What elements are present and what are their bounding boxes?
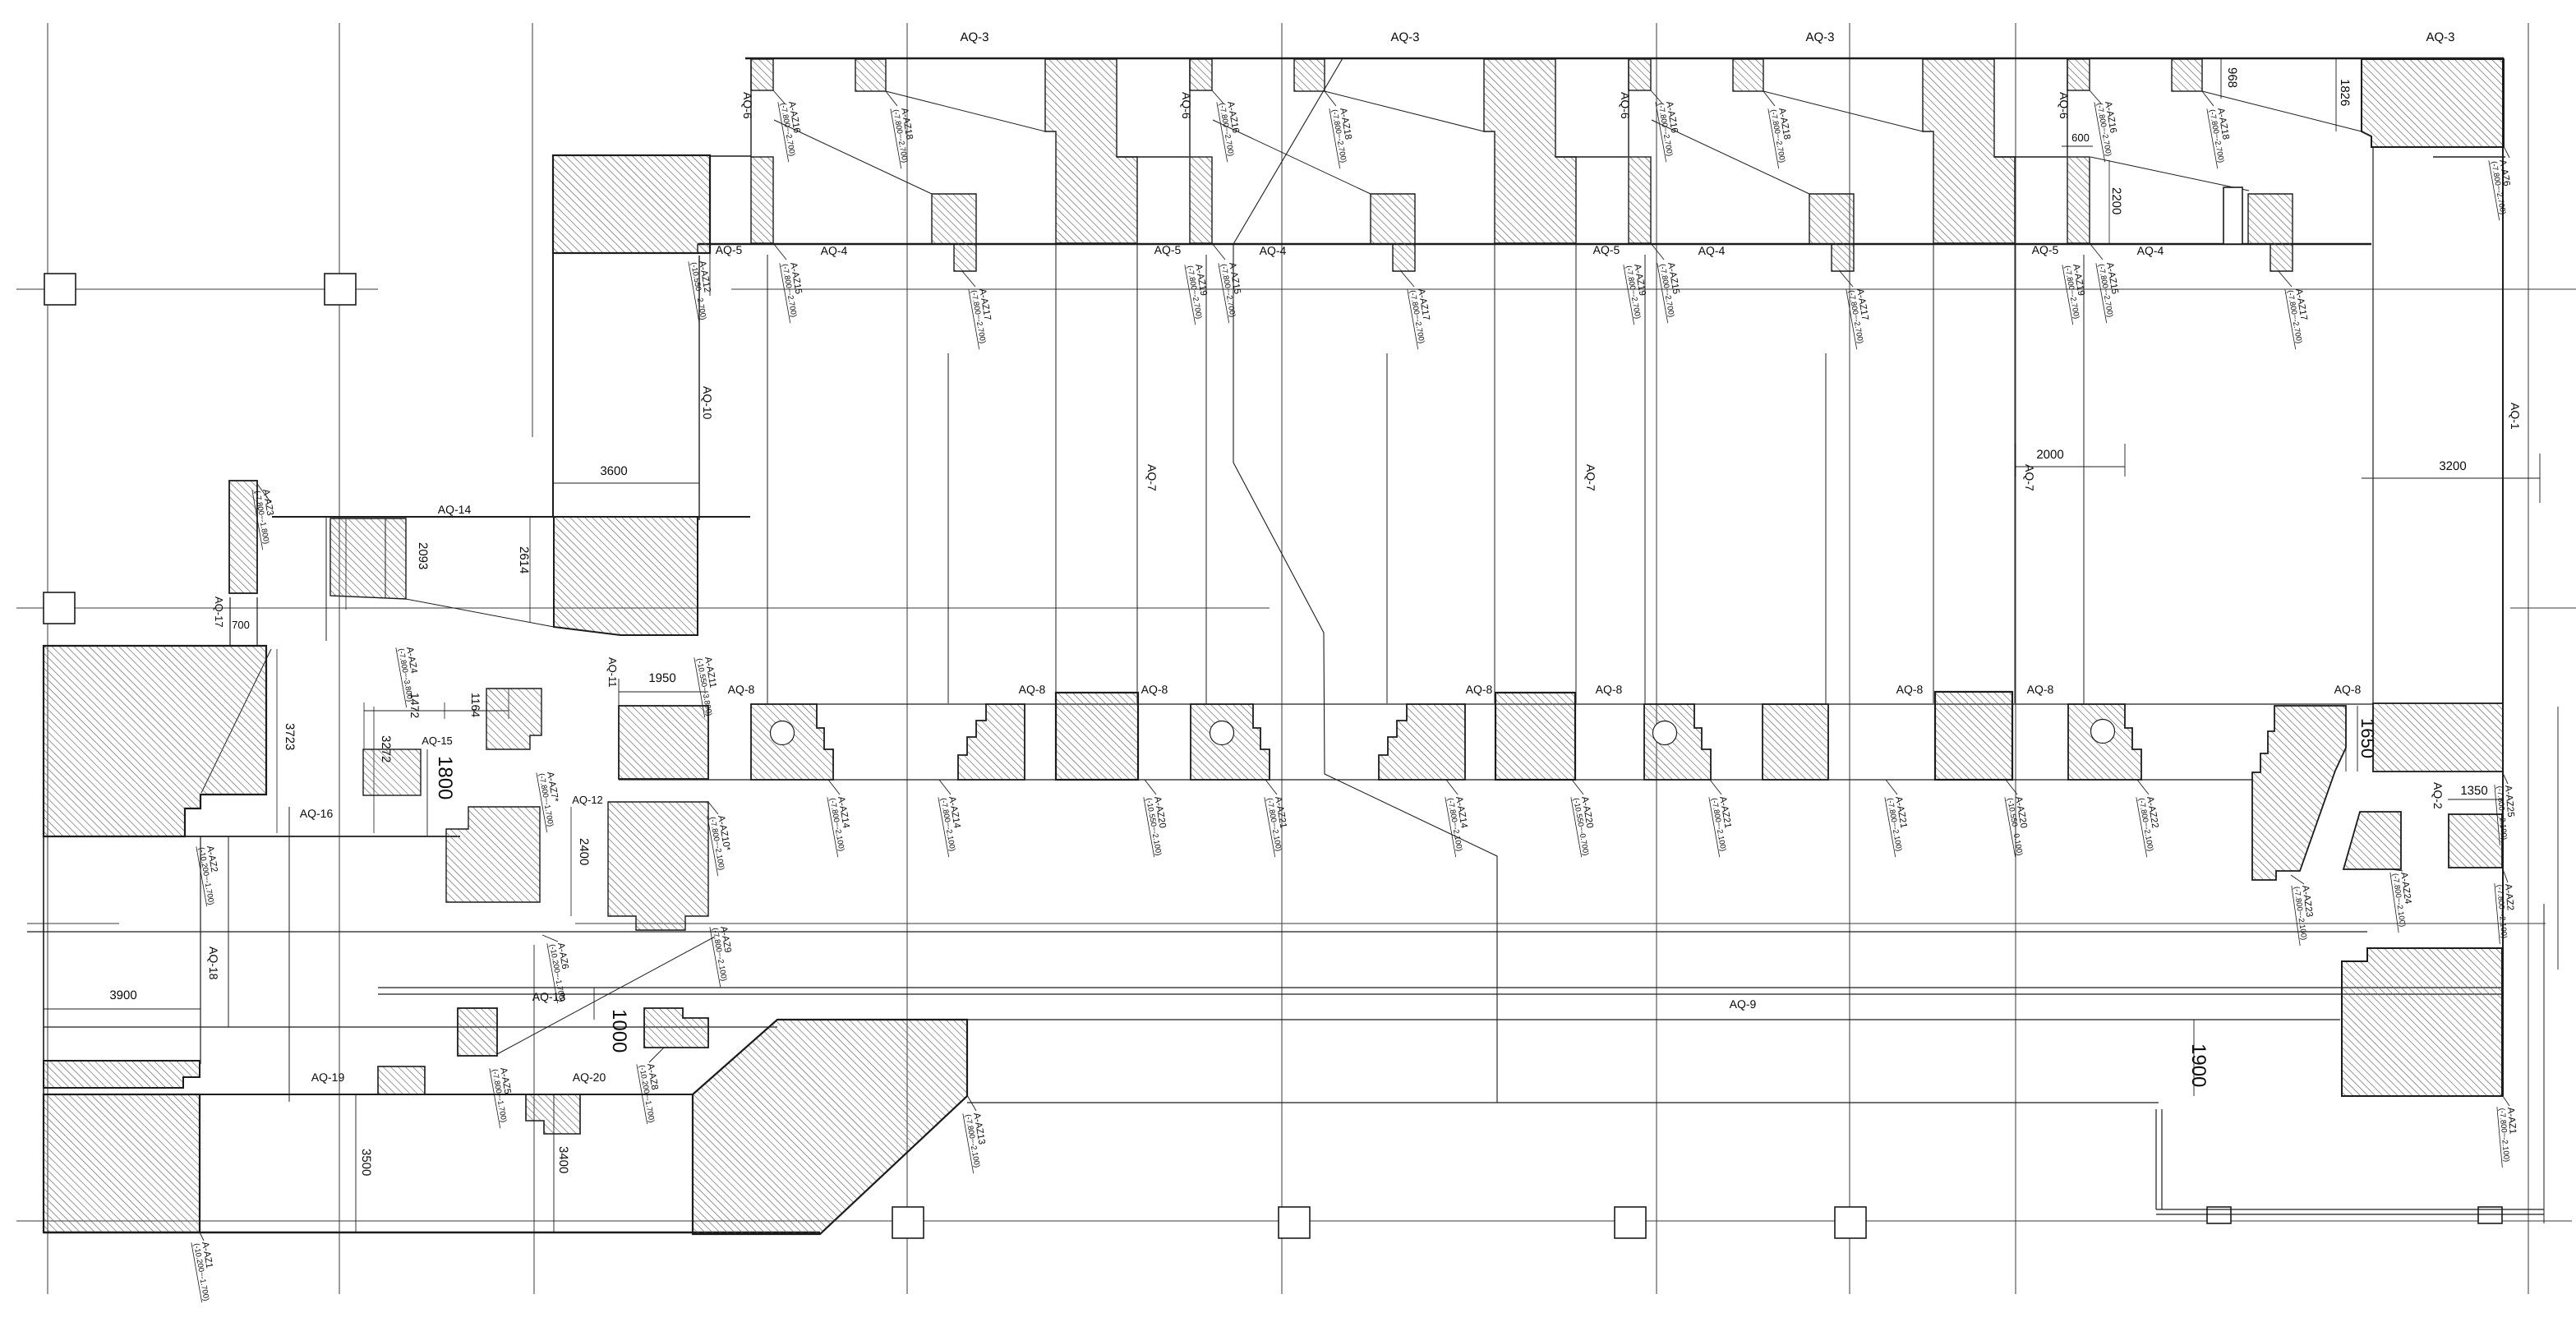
right wall vertical bbox=[2502, 58, 2504, 1096]
label A-AZ4 bbox=[396, 644, 425, 707]
wall vertical below module 4 corner bbox=[2372, 147, 2374, 703]
pier bottom right stepped bbox=[2342, 948, 2502, 1096]
label A-AZ15 module 3 bbox=[1657, 260, 1686, 323]
label A-AZ2 left bbox=[196, 843, 225, 906]
svg-text:AQ-11: AQ-11 bbox=[606, 657, 619, 688]
pier A-AZ20 dark rect 2 bbox=[1495, 693, 1575, 780]
svg-text:AQ-8: AQ-8 bbox=[728, 683, 755, 696]
pier A-AZ17 module 3 bbox=[1809, 194, 1854, 271]
svg-text:AQ-7: AQ-7 bbox=[2023, 464, 2036, 491]
pier A-AZ20 dark rect 1 bbox=[1056, 693, 1138, 780]
leader A-AZ10 bbox=[708, 802, 718, 814]
label A-AZ18 module 3 bbox=[1768, 105, 1797, 168]
leader lines module 3 bbox=[1651, 90, 1662, 104]
svg-text:AQ-5: AQ-5 bbox=[1593, 243, 1620, 256]
module 3 left edge bbox=[1628, 59, 1629, 157]
wall line y1241 right bbox=[967, 1019, 2340, 1020]
label A-AZ15 module 4 bbox=[2096, 260, 2125, 323]
pier A-AZ17 module 4 bbox=[2248, 194, 2293, 271]
pier AQ-11/AQ-14 block P bbox=[554, 517, 698, 635]
svg-text:AQ-3: AQ-3 bbox=[960, 30, 988, 44]
wall vertical AQ-7 below module 1 bbox=[947, 353, 949, 703]
svg-text:700: 700 bbox=[232, 619, 250, 631]
pier A-AZ3 bbox=[229, 481, 257, 593]
svg-text:AQ-5: AQ-5 bbox=[1154, 243, 1182, 256]
wall segment y191 module 2 bbox=[1555, 156, 1628, 158]
label A-AZ2 right bbox=[2495, 882, 2518, 944]
wall AQ-7 big pier module 2 bbox=[1484, 59, 1576, 243]
module 2 left edge bbox=[1189, 59, 1191, 157]
svg-text:AQ-20: AQ-20 bbox=[573, 1071, 606, 1084]
label A-AZ7* bbox=[537, 769, 565, 832]
svg-text:1826: 1826 bbox=[2338, 79, 2352, 106]
pier strip K bottom left bbox=[44, 1061, 200, 1088]
pier A-AZ17 module 1 bbox=[932, 194, 976, 271]
wall line y1342 right bbox=[967, 1102, 2159, 1103]
slab edge diagonal lower module 1 bbox=[774, 120, 932, 194]
wall AQ-5/AQ-4 line bbox=[698, 243, 2371, 245]
label A-AZ17 module 2 bbox=[1408, 286, 1436, 349]
svg-text:3900: 3900 bbox=[109, 988, 136, 1002]
pier A-AZ18 module 4 bbox=[2172, 59, 2202, 91]
svg-text:AQ-6: AQ-6 bbox=[1180, 92, 1193, 119]
svg-text:AQ-4: AQ-4 bbox=[821, 244, 848, 257]
wall segment y191 module 4 bbox=[2433, 156, 2505, 158]
pier G2 right of AQ-12 channel bbox=[608, 802, 708, 930]
leader lines module 4 bbox=[2090, 90, 2101, 104]
wall vertical AQ-7 below module 3 bbox=[1825, 353, 1827, 703]
svg-text:AQ-9: AQ-9 bbox=[1730, 997, 1757, 1011]
right dim extension line bbox=[2557, 707, 2559, 970]
pier A-AZ23 c4 with opening bbox=[2068, 704, 2141, 780]
label A-AZ17 module 4 bbox=[2285, 286, 2314, 349]
label A-AZ9 bbox=[710, 924, 739, 987]
slab break polyline bbox=[1233, 58, 1497, 1103]
label A-AZ17 module 1 bbox=[969, 286, 998, 349]
svg-text:AQ-3: AQ-3 bbox=[2426, 30, 2454, 44]
label A-AZ20 below band bbox=[1145, 780, 1156, 795]
label A-AZ18 module 2 bbox=[1329, 105, 1358, 168]
label A-AZ22 below band bbox=[2137, 780, 2149, 795]
svg-text:1000: 1000 bbox=[608, 1009, 630, 1053]
svg-text:AQ-4: AQ-4 bbox=[1698, 244, 1726, 257]
svg-text:2000: 2000 bbox=[2036, 448, 2063, 462]
pier A-AZ13 big hexagon bbox=[693, 1020, 967, 1234]
svg-text:3600: 3600 bbox=[600, 464, 627, 478]
label A-AZ16 module 1 bbox=[778, 99, 807, 162]
wall AQ-10 right edge bbox=[698, 256, 700, 520]
slab diagonal AQ-14 to AQ-16 bbox=[406, 599, 554, 627]
svg-text:AQ-18: AQ-18 bbox=[207, 947, 220, 980]
wall AQ-16 line bbox=[44, 836, 460, 837]
svg-text:AQ-8: AQ-8 bbox=[2334, 683, 2362, 696]
pier A-AZ16 upper module 3 bbox=[1629, 59, 1651, 90]
label A-AZ21 below band bbox=[1710, 780, 1721, 795]
slab edge diagonal upper module 4 bbox=[2202, 91, 2362, 131]
dim 1650 bbox=[2345, 706, 2347, 772]
pier A-AZ17 module 2 bbox=[1371, 194, 1415, 271]
label A-AZ18 module 1 bbox=[891, 105, 919, 168]
slab edge diagonal lower module 4 bbox=[2090, 157, 2249, 191]
label A-AZ15 module 2 bbox=[1219, 260, 1247, 323]
label A-AZ16 module 3 bbox=[1656, 99, 1684, 162]
svg-text:1950: 1950 bbox=[648, 671, 675, 685]
wall AQ-19/AQ-20 line bbox=[44, 1094, 693, 1095]
wall segment y190 left of module 1 bbox=[710, 155, 751, 157]
svg-text:AQ-6: AQ-6 bbox=[741, 92, 754, 119]
leader lines module 1 bbox=[773, 90, 785, 104]
pier I AQ-13 right bbox=[644, 1008, 708, 1048]
svg-text:AQ-6: AQ-6 bbox=[2058, 92, 2071, 119]
label A-AZ11 bbox=[694, 654, 723, 717]
svg-text:AQ-7: AQ-7 bbox=[1584, 464, 1597, 491]
svg-text:3723: 3723 bbox=[283, 723, 297, 750]
pier A-AZ21 c3 with opening bbox=[1644, 704, 1711, 780]
wall AQ-7 big pier module 4 bbox=[2362, 59, 2504, 147]
pier M on AQ-19 bbox=[378, 1066, 425, 1094]
building bottom edge bbox=[44, 1232, 820, 1233]
svg-text:AQ-16: AQ-16 bbox=[300, 807, 334, 820]
diagonal AQ-13 leader bbox=[497, 937, 715, 1054]
svg-text:AQ-4: AQ-4 bbox=[1260, 244, 1287, 257]
label A-AZ15 module 1 bbox=[780, 260, 809, 323]
label A-AZ13 bbox=[963, 1110, 992, 1173]
pier A-AZ22 dark rect 3 bbox=[1935, 692, 2012, 780]
pier A-AZ16 upper module 2 bbox=[1190, 59, 1212, 90]
label A-AZ8 bbox=[637, 1061, 666, 1124]
column squares at grid intersections bbox=[44, 274, 2502, 1238]
leader lines module 2 bbox=[1212, 90, 1223, 104]
pier A-AZ14 s1 stepped bbox=[958, 704, 1025, 780]
svg-text:AQ-7: AQ-7 bbox=[1145, 464, 1159, 491]
wall AQ-14 line bbox=[272, 516, 750, 518]
bottom right corner wall bbox=[2155, 1109, 2157, 1209]
svg-text:AQ-19: AQ-19 bbox=[311, 1071, 345, 1084]
pier big block L bottom left bbox=[44, 1094, 200, 1232]
pier plain rect right bbox=[1763, 704, 1828, 780]
wall AQ-14 top rect bbox=[553, 155, 710, 253]
svg-text:2400: 2400 bbox=[577, 838, 591, 865]
slab edge diagonal lower module 3 bbox=[1652, 120, 1809, 194]
label A-AZ10* bbox=[707, 813, 736, 876]
label A-AZ18 module 4 bbox=[2207, 105, 2236, 168]
label A-AZ23 bbox=[2292, 883, 2318, 946]
wall AQ-7 big pier module 1 bbox=[1045, 59, 1137, 243]
svg-text:AQ-8: AQ-8 bbox=[1019, 683, 1046, 696]
pier AQ-15 small bbox=[363, 749, 421, 795]
svg-text:AQ-8: AQ-8 bbox=[1466, 683, 1493, 696]
label A-AZ19 module 3 bbox=[1624, 261, 1652, 325]
svg-text:3200: 3200 bbox=[2439, 459, 2466, 473]
wall AQ-10 vertical pair bbox=[552, 155, 554, 517]
svg-text:1164: 1164 bbox=[469, 693, 482, 717]
label A-AZ16 module 4 bbox=[2094, 99, 2123, 162]
wall segment y191 module 1 bbox=[1117, 156, 1189, 158]
wall line y1250 left bbox=[44, 1026, 777, 1028]
label A-AZ1 bottom right bbox=[2497, 1105, 2520, 1168]
svg-text:AQ-5: AQ-5 bbox=[716, 243, 743, 256]
small white pier module 4 bbox=[2223, 187, 2242, 244]
svg-text:968: 968 bbox=[2225, 67, 2239, 88]
module 1 left edge bbox=[750, 59, 752, 157]
label A-AZ6 right bbox=[2489, 157, 2518, 220]
label A-AZ17 module 3 bbox=[1846, 286, 1875, 349]
wall line y857 middle band bbox=[751, 703, 2373, 705]
wall vertical below module 1 bbox=[767, 255, 768, 703]
svg-text:AQ-4: AQ-4 bbox=[2137, 244, 2164, 257]
label A-AZ25 bbox=[2495, 783, 2518, 845]
label A-AZ1 bottom left bbox=[191, 1239, 220, 1302]
pier A-AZ16 upper module 1 bbox=[751, 59, 773, 90]
svg-text:AQ-14: AQ-14 bbox=[438, 503, 472, 516]
pier A-AZ15 lower module 3 bbox=[1629, 157, 1651, 243]
dim line 1472/1164 bbox=[364, 710, 509, 712]
svg-text:1350: 1350 bbox=[2460, 784, 2487, 798]
wall vertical below module 4 bbox=[2083, 255, 2085, 703]
wall vertical below module 2 bbox=[1205, 255, 1207, 703]
label A-AZ24 bbox=[2390, 870, 2417, 933]
label A-AZ20 below band bbox=[2006, 780, 2017, 795]
verticals below A-AZ3 bbox=[229, 597, 231, 646]
svg-text:AQ-6: AQ-6 bbox=[1619, 92, 1632, 119]
svg-text:AQ-1: AQ-1 bbox=[2509, 403, 2522, 430]
slab edge diagonal upper module 3 bbox=[1763, 91, 1923, 131]
AQ-14 rect bottom step bbox=[697, 244, 698, 253]
slab edge diagonal upper module 1 bbox=[886, 91, 1045, 131]
svg-text:3500: 3500 bbox=[359, 1149, 373, 1176]
label A-AZ19 module 4 bbox=[2062, 261, 2091, 325]
svg-text:1472: 1472 bbox=[408, 693, 422, 718]
wall line y1138 bbox=[27, 931, 2367, 933]
left edge verticals bbox=[43, 646, 44, 1232]
svg-text:AQ-8: AQ-8 bbox=[1141, 683, 1168, 696]
label A-AZ19 module 2 bbox=[1185, 261, 1214, 325]
pier A-AZ23 stepped big bbox=[2252, 706, 2346, 880]
svg-text:AQ-3: AQ-3 bbox=[1805, 30, 1834, 44]
svg-text:AQ-17: AQ-17 bbox=[213, 597, 225, 628]
diagonal inside left block bbox=[201, 649, 271, 793]
svg-text:AQ-8: AQ-8 bbox=[1596, 683, 1623, 696]
label A-AZ21 below band bbox=[1886, 780, 1897, 795]
svg-text:AQ-15: AQ-15 bbox=[422, 735, 453, 747]
label A-AZ5 bbox=[490, 1065, 518, 1128]
pier below 1350 bbox=[2449, 814, 2502, 868]
svg-text:AQ-5: AQ-5 bbox=[2032, 243, 2059, 256]
svg-text:3400: 3400 bbox=[556, 1146, 570, 1173]
wall line y949 middle band bbox=[619, 779, 2252, 781]
label A-AZ16 module 2 bbox=[1217, 99, 1246, 162]
pier A-AZ24 inner trapezoid bbox=[2343, 812, 2401, 869]
label A-AZ12 bbox=[689, 258, 717, 321]
svg-text:2200: 2200 bbox=[2109, 187, 2123, 214]
label A-AZ3 bbox=[252, 486, 281, 550]
svg-text:1900: 1900 bbox=[2187, 1043, 2210, 1087]
label A-AZ21 below band bbox=[1265, 780, 1277, 795]
pier A-AZ15 lower module 1 bbox=[751, 157, 773, 243]
wall AQ-16/AQ-17 big pier bbox=[44, 646, 266, 836]
wall AQ-7 big pier module 3 bbox=[1923, 59, 2015, 243]
pier AQ-11 wide rect bbox=[619, 706, 708, 779]
wall segment y191 module 3 bbox=[1994, 156, 2067, 158]
wall vertical AQ-7 below module 2 bbox=[1386, 353, 1388, 703]
svg-text:2093: 2093 bbox=[416, 542, 430, 569]
svg-text:AQ-10: AQ-10 bbox=[701, 386, 714, 420]
pier G1 left of AQ-12 channel bbox=[446, 807, 540, 902]
pier A-AZ18 module 1 bbox=[855, 59, 886, 91]
label A-AZ14 below band bbox=[939, 780, 951, 795]
svg-text:AQ-2: AQ-2 bbox=[2431, 782, 2445, 809]
svg-text:1800: 1800 bbox=[434, 756, 456, 799]
svg-text:AQ-3: AQ-3 bbox=[1390, 30, 1419, 44]
wall AQ-3 top edge bbox=[745, 58, 2504, 60]
wall vertical below module 3 bbox=[1644, 255, 1646, 703]
pier A-AZ21 c2 with opening bbox=[1191, 704, 1270, 780]
svg-text:2614: 2614 bbox=[517, 546, 531, 573]
pier N below AQ-19 bbox=[526, 1094, 580, 1134]
pier A-AZ4 parallelogram bbox=[330, 518, 406, 599]
pier A-AZ16 upper module 4 bbox=[2067, 59, 2090, 90]
pier A-AZ14 c1 with opening bbox=[751, 704, 833, 780]
svg-text:AQ-12: AQ-12 bbox=[572, 794, 603, 806]
pier A-AZ14 s2 stepped bbox=[1379, 704, 1465, 780]
svg-text:AQ-8: AQ-8 bbox=[1896, 683, 1924, 696]
slab edge diagonal upper module 2 bbox=[1325, 91, 1484, 131]
label A-AZ14 below band bbox=[1446, 780, 1458, 795]
label A-AZ20 below band bbox=[1572, 780, 1583, 795]
svg-text:600: 600 bbox=[2071, 131, 2090, 144]
right verticals lower bbox=[2543, 904, 2545, 1223]
pier A-AZ18 module 2 bbox=[1294, 59, 1325, 91]
label A-AZ14 below band bbox=[828, 780, 840, 795]
wall AQ-9 pair bbox=[378, 987, 2503, 988]
pier A-AZ18 module 3 bbox=[1733, 59, 1763, 91]
pier A-AZ15 lower module 2 bbox=[1190, 157, 1212, 243]
label A-AZ6 lower bbox=[547, 940, 576, 1003]
pier A-AZ7 F block bbox=[486, 689, 541, 749]
module 4 left edge bbox=[2067, 59, 2068, 157]
slab edge diagonal lower module 2 bbox=[1213, 120, 1371, 194]
svg-text:AQ-8: AQ-8 bbox=[2027, 683, 2054, 696]
pier A-AZ15 lower module 4 bbox=[2067, 157, 2090, 243]
label A-AZ12 leader vertical bbox=[709, 253, 711, 296]
pier right band AQ-2 bbox=[2373, 703, 2503, 772]
pier H AQ-13 bbox=[458, 1008, 497, 1056]
